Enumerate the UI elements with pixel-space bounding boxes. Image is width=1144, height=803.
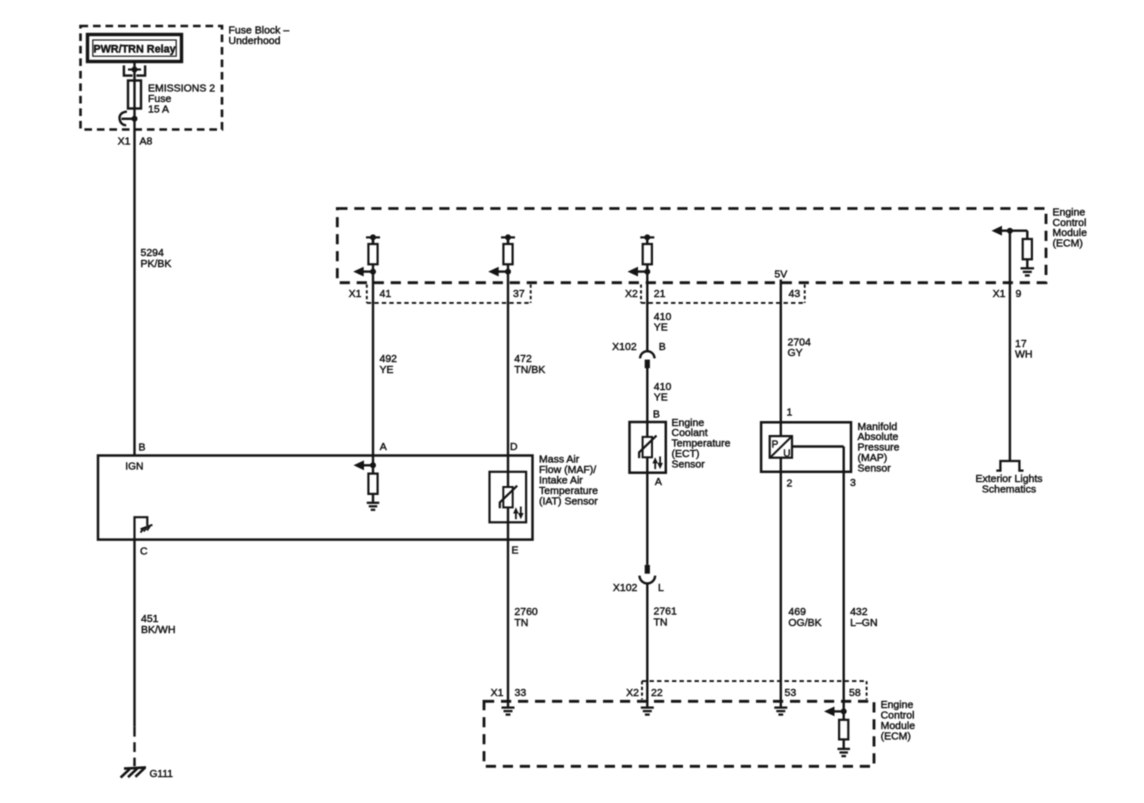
svg-text:A: A	[380, 441, 387, 453]
svg-text:41: 41	[380, 288, 392, 300]
svg-text:Sensor: Sensor	[672, 458, 706, 470]
svg-text:15 A: 15 A	[148, 104, 169, 116]
svg-text:Schematics: Schematics	[982, 484, 1036, 496]
svg-text:A: A	[655, 476, 662, 488]
svg-text:PWR/TRN Relay: PWR/TRN Relay	[93, 43, 175, 55]
svg-text:5V: 5V	[774, 268, 787, 280]
svg-text:1: 1	[787, 406, 793, 418]
svg-text:L: L	[658, 582, 664, 594]
svg-text:A8: A8	[140, 136, 153, 148]
svg-text:X1: X1	[993, 288, 1006, 300]
svg-text:GY: GY	[788, 347, 803, 359]
svg-text:Underhood: Underhood	[229, 35, 281, 47]
svg-text:X1: X1	[349, 288, 362, 300]
svg-text:53: 53	[785, 687, 797, 699]
svg-text:TN: TN	[654, 616, 668, 628]
svg-text:G111: G111	[150, 769, 174, 780]
svg-text:E: E	[512, 545, 519, 557]
svg-text:(ECM): (ECM)	[1053, 237, 1083, 249]
svg-text:X1: X1	[491, 687, 504, 699]
svg-text:OG/BK: OG/BK	[788, 617, 821, 629]
svg-text:3: 3	[850, 477, 856, 489]
svg-text:C: C	[140, 546, 148, 558]
svg-text:X2: X2	[626, 687, 639, 699]
svg-text:58: 58	[849, 687, 861, 699]
svg-text:Sensor: Sensor	[858, 462, 892, 474]
svg-text:(IAT) Sensor: (IAT) Sensor	[539, 495, 598, 507]
svg-text:2: 2	[787, 478, 793, 490]
svg-text:PK/BK: PK/BK	[141, 258, 172, 270]
svg-text:L–GN: L–GN	[850, 617, 877, 629]
svg-text:21: 21	[654, 288, 666, 300]
svg-text:X102: X102	[613, 582, 638, 594]
svg-text:(ECM): (ECM)	[881, 731, 911, 743]
svg-text:B: B	[653, 408, 660, 420]
svg-text:IGN: IGN	[125, 461, 143, 472]
svg-text:22: 22	[651, 687, 663, 699]
svg-text:43: 43	[789, 288, 801, 300]
svg-text:TN: TN	[514, 617, 528, 629]
svg-text:TN/BK: TN/BK	[514, 364, 545, 376]
svg-text:X1: X1	[118, 136, 131, 148]
svg-text:B: B	[139, 441, 146, 453]
svg-text:B: B	[659, 341, 666, 353]
svg-text:YE: YE	[654, 321, 668, 333]
svg-text:BK/WH: BK/WH	[141, 624, 175, 636]
svg-text:WH: WH	[1015, 349, 1033, 361]
svg-text:U: U	[783, 448, 790, 459]
svg-text:37: 37	[513, 288, 525, 300]
svg-text:X2: X2	[625, 288, 638, 300]
svg-text:33: 33	[515, 687, 527, 699]
svg-text:YE: YE	[380, 364, 394, 376]
svg-text:9: 9	[1016, 288, 1022, 300]
svg-text:P: P	[772, 439, 779, 450]
svg-text:D: D	[510, 441, 518, 453]
svg-text:X102: X102	[612, 341, 637, 353]
svg-text:YE: YE	[654, 392, 668, 404]
